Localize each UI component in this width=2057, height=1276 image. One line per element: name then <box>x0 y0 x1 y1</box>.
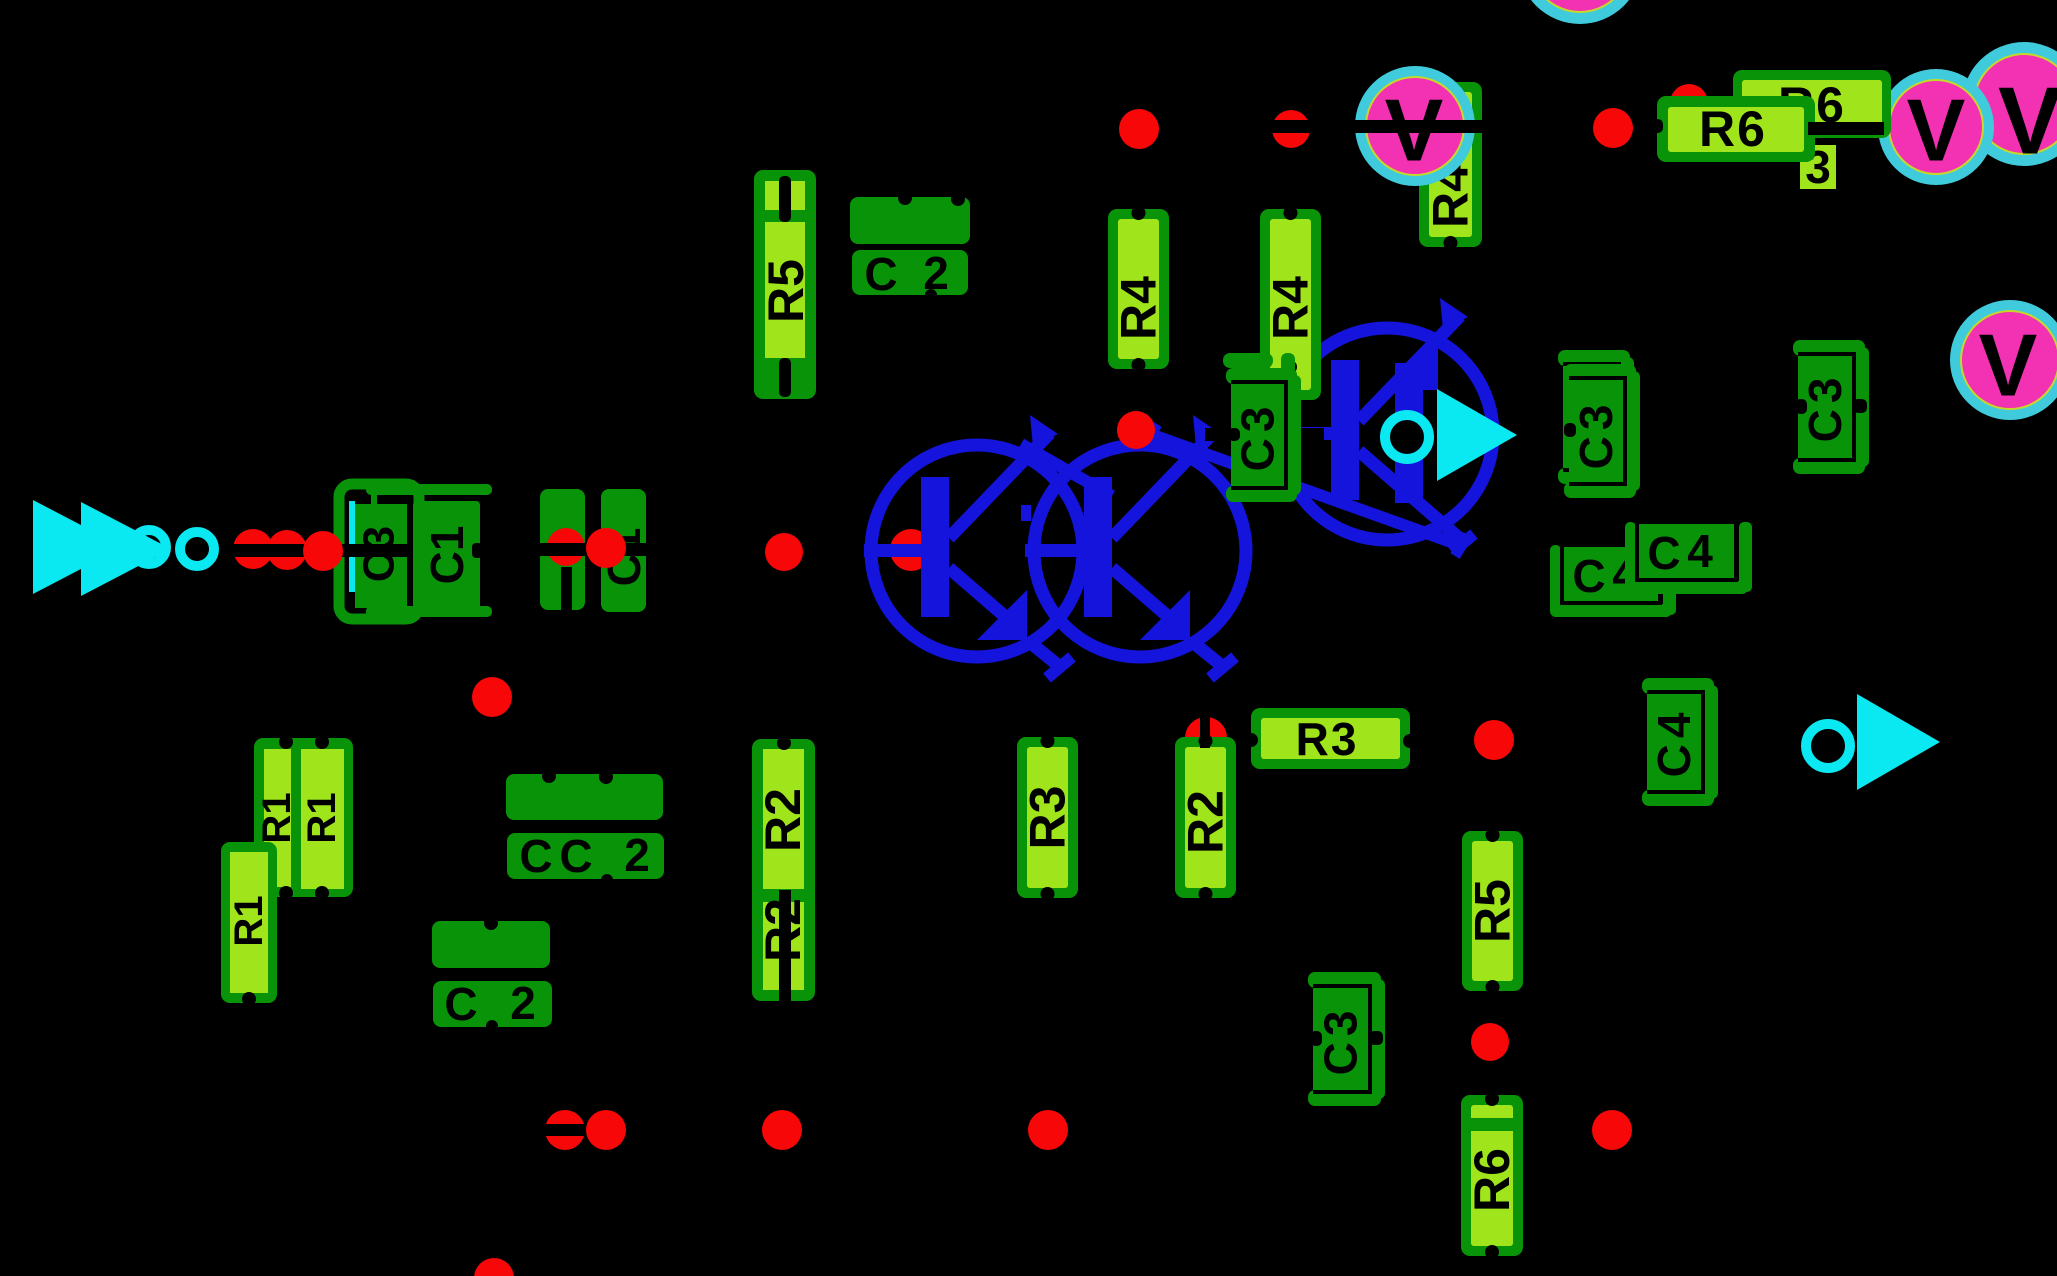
capacitor C2 pair reference labels C C 2 <box>507 829 664 886</box>
svg-text:2: 2 <box>624 829 650 881</box>
junction dot at R2 top <box>1185 717 1227 759</box>
junction dot upper middle <box>1119 109 1159 149</box>
svg-text:R3: R3 <box>1020 786 1076 850</box>
resistor label R6 third copy (sliver with 3) <box>1800 141 1836 193</box>
svg-text:R5: R5 <box>758 259 814 323</box>
resistor R2 right <box>1175 717 1236 901</box>
wire R6 to V2 <box>1808 122 1884 135</box>
junction dot at Q1 base <box>890 529 932 571</box>
capacitor C3 bottom <box>1308 972 1385 1106</box>
svg-text:C1: C1 <box>421 526 473 585</box>
junction dot right of R3 label <box>1474 720 1514 760</box>
svg-text:R2: R2 <box>1178 790 1234 854</box>
capacitor C1/C3 cluster frame <box>339 484 492 619</box>
output port OUT1 <box>1385 389 1517 481</box>
svg-text:R5: R5 <box>1465 879 1521 943</box>
input port IN copy A <box>33 500 166 594</box>
svg-text:R4: R4 <box>1111 276 1167 340</box>
resistor R4 copy A <box>1108 206 1169 372</box>
junction dot at R6 <box>1670 84 1708 122</box>
junction dot on V1 wire <box>1272 110 1310 148</box>
wire through bottom dot <box>543 1124 589 1136</box>
capacitor C2 single reference label <box>433 977 552 1032</box>
junction dot 2 on input wire <box>267 530 307 570</box>
resistor label R3 box <box>1244 708 1417 769</box>
junction dot A at C1 <box>547 528 585 566</box>
junction dot 3 on input wire <box>303 531 343 571</box>
capacitor C1 second copy right box <box>598 489 650 612</box>
junction dot at transistor base wire <box>765 533 803 571</box>
svg-text:C: C <box>1572 550 1605 602</box>
capacitor C4 single <box>1642 678 1718 806</box>
transistor Q3 <box>1274 298 1493 552</box>
capacitor C3 right single <box>1793 340 1869 474</box>
wire through C1 copy <box>520 543 660 556</box>
svg-text:C4: C4 <box>1648 707 1700 778</box>
power symbol V1 <box>1355 66 1475 186</box>
power symbol V3 (cut at right edge) <box>1962 42 2057 175</box>
resistor label R6 copy B (front) <box>1651 96 1815 162</box>
junction dot below R5 right <box>1471 1023 1509 1061</box>
junction dot 1 on input wire <box>233 529 273 569</box>
junction dot bottom row 3 <box>762 1110 802 1150</box>
pin wire through C1 left box <box>561 567 572 612</box>
svg-text:V: V <box>1998 68 2057 175</box>
output port OUT2 <box>1806 694 1940 790</box>
capacitor C4 pair copy B <box>1625 522 1752 594</box>
input port IN copy B <box>81 502 214 596</box>
strike slash over Q3 <box>1144 424 1468 556</box>
svg-text:C: C <box>559 830 592 882</box>
junction dot above R1 <box>472 677 512 717</box>
junction dot right of R6 bottom <box>1592 1110 1632 1150</box>
svg-text:R4: R4 <box>1263 276 1319 340</box>
svg-text:R6: R6 <box>1699 101 1767 157</box>
resistor R1 pair copies A and B <box>254 735 353 913</box>
resistor R5 <box>754 170 816 399</box>
capacitor C2 reference label <box>852 247 968 301</box>
transistor Q4 base bar (behind port) <box>1395 363 1423 503</box>
svg-text:R1: R1 <box>255 792 299 843</box>
transistor Q2 <box>1021 415 1246 678</box>
svg-text:C: C <box>864 248 897 300</box>
junction dot bottom row 2 <box>586 1110 626 1150</box>
capacitor C1 second copy left box <box>540 489 585 610</box>
svg-text:C3: C3 <box>1315 1005 1367 1076</box>
resistor R1 copy C <box>221 842 277 1017</box>
svg-text:C: C <box>444 978 477 1030</box>
svg-text:R2: R2 <box>755 788 811 852</box>
capacitor C3 right pair copy B <box>1564 364 1640 498</box>
resistor label R6 copy A (behind) <box>1733 70 1891 138</box>
junction dot at bottom edge <box>474 1258 514 1276</box>
resistor R5 right <box>1462 828 1523 994</box>
capacitor C2 single value box <box>432 916 550 968</box>
svg-text:4: 4 <box>1687 525 1713 577</box>
slash S2 over Q1/Q2 <box>1021 444 1112 496</box>
svg-text:V: V <box>1907 81 1966 180</box>
junction dot on Q2 circle top <box>1117 411 1155 449</box>
svg-text:C: C <box>1647 527 1680 579</box>
power symbol V2 <box>1878 69 1994 185</box>
svg-text:R6: R6 <box>1464 1148 1520 1212</box>
svg-text:C3: C3 <box>1570 399 1622 470</box>
svg-text:V: V <box>1979 316 2038 415</box>
junction dot left of R6 <box>1593 108 1633 148</box>
wire through V1 <box>1262 120 1656 133</box>
power symbol V4 <box>1950 300 2057 420</box>
capacitor C2 value box (top) <box>850 191 970 244</box>
resistor R4 copy B <box>1260 206 1321 403</box>
wire at Q3 base <box>1205 428 1324 441</box>
svg-text:C: C <box>519 830 552 882</box>
capacitor C2 pair value boxes <box>506 769 663 820</box>
svg-text:R3: R3 <box>1296 713 1359 765</box>
capacitor C3 right pair copy A <box>1558 350 1634 484</box>
svg-text:R1: R1 <box>300 792 344 843</box>
wire input to C1 <box>222 544 413 557</box>
resistor R6 bottom <box>1461 1092 1523 1259</box>
svg-text:2: 2 <box>510 977 536 1029</box>
resistor R2 stacked pair <box>752 736 815 1005</box>
resistor R4 third copy (under V1) <box>1419 82 1482 250</box>
resistor R3 body <box>1017 734 1078 901</box>
capacitor C3 at transistor base (two copies) <box>1223 353 1301 502</box>
transistor Q1 <box>864 415 1083 678</box>
svg-text:R1: R1 <box>227 895 271 946</box>
junction dot bottom row 1 (bisected) <box>545 1110 585 1150</box>
power symbol V0 (cut at top edge) <box>1518 0 1642 24</box>
junction dot bottom row 4 <box>1028 1110 1068 1150</box>
capacitor C4 pair copy A <box>1550 545 1676 617</box>
capacitor C1 label box <box>413 501 482 609</box>
junction dot B at C1 <box>586 528 626 568</box>
